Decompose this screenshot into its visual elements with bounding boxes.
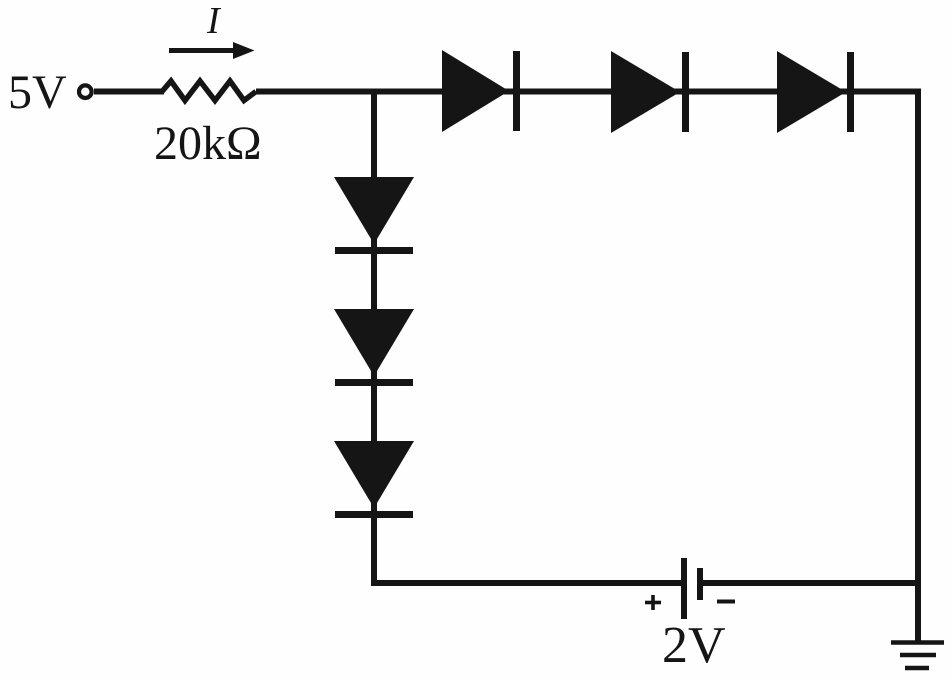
diode D6 (vertical) <box>334 441 414 518</box>
diode D4 (vertical) <box>334 177 414 254</box>
wire terminal to resistor <box>94 89 164 95</box>
ground symbol <box>891 643 944 669</box>
wire D3 to top-right corner <box>854 89 921 95</box>
wire D2 to D3 <box>689 89 777 95</box>
battery B1 positive plate (long bar) <box>681 558 687 619</box>
current label I <box>206 0 222 42</box>
svg-text:2V: 2V <box>662 617 726 674</box>
wire D4 to D5 <box>371 254 377 312</box>
wire resistor to node A <box>256 89 372 95</box>
bottom wire left segment (corner to battery +) <box>371 580 681 586</box>
current arrow <box>169 42 255 59</box>
label 5V (source voltage) <box>8 66 67 119</box>
svg-text:I: I <box>206 0 222 42</box>
wire D1 to D2 <box>520 89 611 95</box>
battery B1 negative plate (short bar) <box>697 568 703 600</box>
wire D6 down to bottom-left corner <box>371 518 377 586</box>
wire bottom-right corner down to ground <box>915 583 921 642</box>
wire D5 to D6 <box>371 386 377 444</box>
label + (battery positive) <box>645 595 661 610</box>
terminal (open circle) <box>79 85 92 98</box>
label 20kΩ (resistor value) <box>154 117 262 170</box>
diode D2 (horizontal) <box>611 51 689 133</box>
diode D5 (vertical) <box>334 309 414 386</box>
svg-text:20kΩ: 20kΩ <box>154 117 262 170</box>
label 2V (battery voltage) <box>662 617 726 674</box>
label − (battery negative) <box>717 600 735 604</box>
resistor R1 <box>162 81 256 101</box>
diode D3 (horizontal) <box>777 51 854 133</box>
bottom wire right segment (battery − to right corner) <box>703 580 918 586</box>
node A (T-junction, top branch point) <box>372 89 442 95</box>
diode D1 (horizontal) <box>442 50 520 132</box>
wire node A down to D4 <box>371 92 377 181</box>
wire right side vertical <box>915 89 921 584</box>
svg-text:5V: 5V <box>8 66 67 119</box>
